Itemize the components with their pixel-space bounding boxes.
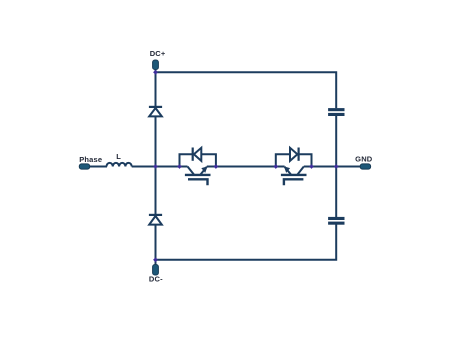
node B (right mid junction)	[334, 164, 339, 169]
diode D4 (anti-parallel of Q2)	[276, 148, 312, 167]
terminal Phase	[79, 164, 89, 169]
svg-text:Phase: Phase	[79, 155, 102, 164]
node Q1 collector	[177, 164, 182, 169]
wire DC+ junction to diode D1	[155, 72, 157, 107]
diode D2 (clamp to DC-)	[149, 215, 162, 225]
wire capacitor C2 to bottom bus	[156, 224, 337, 259]
diode D3 (anti-parallel of Q1)	[180, 148, 216, 167]
transistor Q1 (left IGBT)	[180, 167, 216, 186]
terminal DC+	[153, 60, 159, 70]
node Q2 emitter	[273, 164, 278, 169]
wire phase terminal to inductor	[89, 166, 108, 168]
node Q1 emitter	[214, 164, 219, 169]
wire diode D2 to DC- junction	[155, 225, 157, 260]
wire between transistor Q1 and transistor Q2	[216, 166, 276, 168]
wire diode D1 to node A	[155, 116, 157, 167]
wire node B to capacitor C2	[335, 167, 337, 218]
wire capacitor C1 to node B	[335, 116, 337, 167]
node DC- junction	[153, 257, 158, 262]
node Q2 collector	[309, 164, 314, 169]
node DC+ junction	[153, 70, 158, 75]
arrowhead Q1 emitter	[201, 166, 207, 173]
wire DC+ terminal stub	[155, 68, 157, 73]
inductor L	[107, 163, 132, 167]
diode D1 (clamp to DC+)	[149, 107, 162, 117]
svg-text:DC+: DC+	[150, 49, 166, 58]
wire inductor to node A	[132, 166, 180, 168]
transistor Q2 (right IGBT, mirrored)	[276, 167, 312, 186]
wire node A to diode D2	[155, 167, 157, 216]
terminal DC-	[153, 265, 159, 276]
svg-text:GND: GND	[355, 155, 373, 164]
node A (phase node junction)	[153, 164, 158, 169]
wire top bus DC+	[156, 72, 337, 108]
terminal GND	[360, 164, 370, 169]
svg-text:L: L	[116, 152, 121, 161]
svg-text:DC-: DC-	[149, 274, 163, 283]
capacitor C2 (lower DC-link)	[328, 217, 344, 225]
wire node B to GND terminal	[312, 166, 362, 168]
capacitor C1 (upper DC-link)	[328, 108, 344, 116]
arrowhead Q2 emitter	[284, 166, 290, 173]
wire DC- terminal stub	[155, 260, 157, 266]
